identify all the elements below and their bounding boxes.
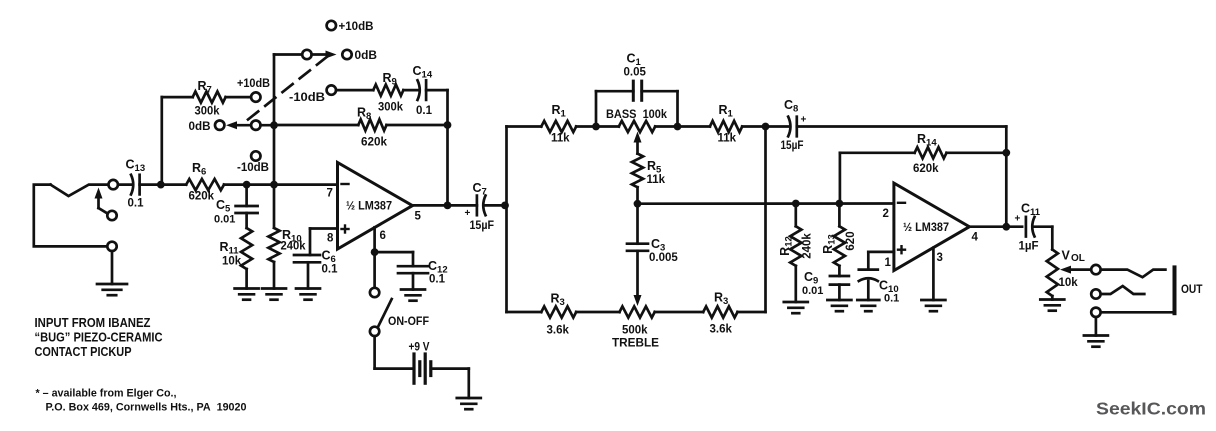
wire R7 to +10dB terminal — [226, 96, 251, 99]
svg-text:11k: 11k — [551, 133, 570, 145]
note input line1 — [35, 316, 151, 330]
label 0dB top — [355, 50, 378, 62]
label C7 — [473, 181, 487, 198]
resistor R7 — [193, 92, 226, 103]
input jack tip terminal — [109, 180, 118, 189]
svg-text:300k: 300k — [378, 102, 404, 114]
wire pin6 node down — [373, 256, 376, 288]
pin 4 label — [972, 232, 979, 244]
label R10 value — [281, 241, 307, 253]
svg-text:0.1: 0.1 — [322, 264, 339, 276]
svg-text:500k: 500k — [622, 325, 648, 337]
wire R5 to mid node — [636, 187, 639, 204]
node R10 branch (junction) — [270, 181, 278, 189]
wire R8 right — [387, 124, 448, 127]
label R12 — [778, 236, 795, 256]
wire op-amp output — [413, 204, 477, 207]
output jack ring terminal — [1091, 289, 1100, 298]
svg-text:8: 8 — [327, 233, 334, 245]
terminal -10dB (top switch) — [327, 85, 336, 94]
label R1 right — [719, 103, 734, 120]
pin 6 label — [380, 230, 386, 242]
svg-text:11k: 11k — [718, 133, 737, 145]
wire sleeve to ground — [111, 251, 114, 284]
svg-text:620k: 620k — [189, 191, 215, 203]
label C12 — [428, 259, 448, 276]
label R1 right value — [718, 133, 737, 145]
capacitor C1 box right — [642, 91, 678, 126]
wire C7 to bus — [486, 204, 507, 207]
capacitor C5 — [236, 206, 258, 213]
svg-text:3.6k: 3.6k — [710, 324, 733, 336]
resistor R1 right — [710, 121, 742, 132]
output jack sleeve terminal — [1091, 308, 1100, 317]
switch wiper terminal (top) — [302, 50, 311, 59]
ganged switch dashed link — [248, 56, 328, 120]
input jack wiper arrow — [95, 188, 108, 214]
node bus (junction) — [501, 202, 509, 210]
wire R3 to riser — [738, 311, 766, 314]
wire VOL to ground — [1051, 296, 1054, 300]
label R14 value — [913, 163, 939, 175]
svg-text:V: V — [1062, 249, 1071, 263]
label R13 value — [845, 231, 857, 250]
wire R7 left — [162, 96, 193, 99]
wire R9 to C14 — [403, 89, 417, 92]
svg-text:+: + — [801, 115, 807, 126]
resistor R14 — [915, 147, 947, 158]
op-amp U2 minus sign — [898, 202, 905, 204]
wire R13 stub — [838, 204, 841, 227]
label R9 — [383, 71, 397, 88]
label C6 — [322, 249, 336, 266]
label BASS — [606, 109, 668, 121]
label R7 value — [195, 106, 221, 118]
svg-text:P.O. Box 469, Cornwells Hts.,: P.O. Box 469, Cornwells Hts., PA 19020 — [46, 402, 247, 414]
capacitor C8 — [788, 117, 797, 137]
wire R1 to C8 — [742, 125, 788, 128]
label C1 value — [624, 67, 647, 79]
ground C12 — [401, 290, 425, 301]
potentiometer BASS 100k — [619, 121, 655, 132]
wire R11 to ground — [245, 269, 248, 289]
label R7 — [198, 79, 212, 96]
label R3 right value — [710, 324, 733, 336]
label R1 left value — [551, 133, 570, 145]
svg-text:0.1: 0.1 — [128, 198, 145, 210]
wire battery to ground — [431, 369, 469, 398]
label R3 right — [714, 291, 728, 308]
ground output jack — [1084, 336, 1108, 347]
label C13 value — [128, 198, 145, 210]
svg-text:620k: 620k — [361, 137, 388, 149]
svg-text:620: 620 — [845, 231, 857, 250]
label R12 value — [802, 233, 814, 259]
input jack frame — [34, 185, 108, 247]
wire C3 stub — [636, 204, 639, 244]
label 500k — [622, 325, 648, 337]
capacitor C7 — [477, 196, 486, 216]
note input line2 — [35, 331, 163, 345]
label R10 — [282, 228, 302, 245]
svg-text:SeekIC.com: SeekIC.com — [1096, 399, 1206, 419]
svg-text:240k: 240k — [802, 233, 814, 259]
label +9V — [409, 342, 430, 354]
svg-text:5: 5 — [415, 211, 422, 223]
capacitor C11 — [1026, 217, 1035, 237]
label 0dB left — [189, 121, 211, 133]
ground pin3 — [921, 300, 945, 311]
svg-text:OUT: OUT — [1181, 282, 1203, 296]
output jack sleeve wire — [1101, 311, 1173, 314]
label C8 plus — [801, 115, 807, 126]
wire R14 riser left — [839, 153, 842, 204]
wire -10dB to R9 — [336, 89, 373, 92]
svg-text:0.1: 0.1 — [429, 274, 446, 286]
wire bus to R1 — [507, 125, 542, 128]
resistor R11 — [241, 228, 252, 269]
resistor R12 — [790, 226, 801, 265]
wire pin3 stub — [932, 248, 935, 300]
wire middle rail — [638, 202, 894, 205]
capacitor C14 — [418, 80, 427, 100]
resistor R13 — [834, 226, 845, 265]
node bass left (junction) — [592, 123, 600, 131]
output jack frame bar — [1173, 267, 1177, 313]
terminal 0dB (left switch) — [215, 121, 224, 130]
wire output riser — [1005, 127, 1008, 227]
wire junction down to main row — [273, 125, 276, 184]
label C9 value — [802, 285, 823, 297]
wire treble to R3 right — [655, 311, 704, 314]
svg-text:3.6k: 3.6k — [547, 325, 570, 337]
label VOL value — [1059, 277, 1079, 289]
input jack tip contact — [51, 185, 109, 196]
label C7 plus — [465, 208, 471, 219]
note footnote line2 — [46, 402, 247, 414]
wire R12 to ground — [794, 266, 797, 302]
label R5 — [647, 159, 662, 176]
op-amp U1 minus sign — [342, 183, 349, 185]
svg-text:ON-OFF: ON-OFF — [388, 316, 429, 328]
watermark SeekIC.com — [1096, 399, 1206, 419]
ground C10 — [857, 300, 879, 311]
wire right riser — [764, 127, 767, 313]
label R8 — [357, 106, 371, 123]
op-amp U1 label — [346, 201, 392, 213]
note input line3 — [35, 345, 132, 359]
svg-text:0dB: 0dB — [189, 121, 211, 133]
svg-text:1µF: 1µF — [1019, 241, 1039, 253]
svg-text:+: + — [1015, 214, 1021, 225]
terminal +10dB (top switch) — [327, 21, 336, 30]
treble wiper arrow — [634, 251, 642, 306]
wire R3 to treble — [576, 311, 619, 314]
ground VOL — [1040, 300, 1064, 311]
potentiometer VOL 10k — [1047, 250, 1058, 297]
label R6 — [192, 161, 206, 178]
resistor R3 left — [541, 306, 576, 317]
VOL wiper arrow — [1060, 266, 1091, 274]
op-amp U1 plus sign — [342, 226, 349, 233]
wire U2 output — [969, 225, 1022, 228]
wire C12 to ground — [412, 273, 415, 289]
switch ON-OFF terminal upper — [370, 288, 379, 297]
svg-text:7: 7 — [327, 188, 333, 200]
node R13 (junction) — [836, 200, 844, 208]
ground C9 — [827, 300, 851, 311]
wire R14 left — [840, 151, 915, 154]
svg-text:* – available from Elger Co.,: * – available from Elger Co., — [36, 388, 177, 400]
wire junction up to top switch — [273, 55, 276, 126]
switch ON-OFF terminal lower — [370, 327, 379, 336]
wire sleeve to ground — [1095, 317, 1098, 335]
label R6 value — [189, 191, 215, 203]
pin 3 label — [937, 252, 943, 264]
label C1 — [627, 52, 642, 69]
wire R6 to op-amp — [224, 183, 338, 186]
input jack sleeve terminal — [107, 242, 116, 251]
capacitor C10 — [859, 270, 878, 281]
node treble mid (junction) — [634, 200, 642, 208]
wire pin6 stub — [373, 227, 376, 252]
label C10 — [879, 279, 899, 296]
label ON-OFF — [388, 316, 429, 328]
svg-text:4: 4 — [972, 232, 979, 244]
wire R1 to bass — [576, 125, 619, 128]
pin 5 label — [415, 211, 422, 223]
label R3 left — [551, 292, 565, 309]
label R11 value — [222, 256, 242, 268]
capacitor C6 — [294, 255, 320, 262]
wire C12 stub — [412, 252, 415, 266]
label C10 value — [884, 293, 899, 305]
node C8 left (junction) — [762, 123, 770, 131]
svg-text:10k: 10k — [222, 256, 242, 268]
label R3 left value — [547, 325, 570, 337]
wire C6 to ground — [307, 262, 310, 288]
wire R12 stub — [794, 204, 797, 227]
label R8 value — [361, 137, 388, 149]
label +10dB top — [339, 21, 374, 33]
svg-text:300k: 300k — [195, 106, 221, 118]
label C8 — [784, 98, 798, 115]
svg-text:CONTACT PICKUP: CONTACT PICKUP — [35, 345, 132, 359]
wire C13 to node — [140, 183, 187, 186]
pin 8 label — [327, 233, 334, 245]
label C11 value — [1019, 241, 1039, 253]
capacitor C1 box left — [596, 91, 633, 126]
label R5 value — [647, 174, 666, 186]
svg-text:½ LM387: ½ LM387 — [346, 201, 392, 213]
output jack tip contact — [1101, 270, 1166, 278]
input jack ring terminal — [107, 211, 116, 220]
capacitor C9 — [830, 276, 849, 285]
ground input jack — [97, 284, 127, 295]
label C5 — [216, 198, 231, 215]
resistor R5 — [632, 154, 643, 188]
bass wiper arrow — [634, 132, 642, 154]
wire bus to R3 — [507, 311, 542, 314]
potentiometer TREBLE 500k — [620, 306, 655, 317]
svg-text:10k: 10k — [1059, 277, 1079, 289]
svg-text:-10dB: -10dB — [289, 92, 325, 104]
wire C14 to feedback riser — [426, 89, 447, 92]
svg-text:OL: OL — [1071, 253, 1085, 264]
capacitor C3 — [627, 244, 648, 251]
wire R8 left — [278, 124, 358, 127]
resistor R8 — [358, 119, 386, 130]
resistor R6 — [186, 179, 224, 190]
resistor R10 — [268, 228, 279, 262]
wire wiper to junction — [261, 124, 275, 127]
node pin6 (junction) — [371, 248, 379, 256]
svg-text:0.01: 0.01 — [802, 285, 823, 297]
svg-text:0.01: 0.01 — [214, 214, 235, 226]
label C7 value — [470, 220, 495, 232]
switch wiper arrow left — [226, 121, 251, 129]
svg-text:+9 V: +9 V — [409, 342, 430, 354]
pin 2 label — [883, 208, 889, 220]
label OUT — [1181, 282, 1203, 296]
output jack tip terminal — [1091, 265, 1100, 274]
label C11 plus — [1015, 214, 1021, 225]
resistor R3 right — [703, 306, 737, 317]
svg-text:+10dB: +10dB — [237, 78, 270, 90]
wire pin8 stub — [310, 229, 338, 256]
label C12 value — [429, 274, 446, 286]
wire node to R10 — [273, 185, 276, 228]
capacitor C13 — [131, 175, 140, 195]
svg-text:0.1: 0.1 — [416, 105, 433, 117]
wire C11 to VOL — [1035, 227, 1053, 250]
svg-text:1: 1 — [885, 257, 892, 269]
note footnote line1 — [36, 388, 177, 400]
label R11 — [220, 240, 240, 257]
node U1 output (junction) — [444, 202, 452, 210]
node R8 feedback (junction) — [444, 121, 452, 129]
svg-text:0.05: 0.05 — [624, 67, 647, 79]
op-amp U1 body — [338, 163, 413, 250]
svg-text:6: 6 — [380, 230, 386, 242]
node bass right (junction) — [674, 123, 682, 131]
wire C5 to R11 — [245, 213, 248, 228]
resistor R1 left — [541, 121, 576, 132]
label R9 value — [378, 102, 404, 114]
wire jack to C13 — [118, 183, 132, 186]
label C14 value — [416, 105, 433, 117]
node R14 right (junction) — [1002, 149, 1010, 157]
label R13 — [821, 234, 838, 254]
wire C9 to ground — [838, 285, 841, 300]
svg-text:15µF: 15µF — [781, 140, 804, 152]
op-amp U2 label — [903, 222, 949, 234]
terminal +10dB (left switch) — [251, 92, 260, 101]
label C14 — [413, 64, 433, 81]
wire pin1 stub — [868, 252, 894, 270]
svg-text:+: + — [465, 208, 471, 219]
svg-text:3: 3 — [937, 252, 943, 264]
svg-text:15µF: 15µF — [470, 220, 495, 232]
label R1 left — [552, 103, 567, 120]
svg-text:240k: 240k — [281, 241, 307, 253]
switch wiper terminal (left) — [251, 121, 260, 130]
svg-text:INPUT FROM IBANEZ: INPUT FROM IBANEZ — [35, 316, 151, 330]
label C3 — [651, 237, 665, 254]
wire node to C5 — [245, 185, 248, 206]
node U2 output (junction) — [1002, 223, 1010, 231]
ground battery — [457, 398, 481, 409]
capacitor C1 — [633, 81, 641, 100]
svg-text:620k: 620k — [913, 163, 939, 175]
ground R10 — [262, 289, 286, 300]
wire to top wiper — [274, 53, 302, 56]
wire R14 right — [947, 151, 1007, 154]
battery B1 +9V — [414, 354, 431, 383]
label C8 value — [781, 140, 804, 152]
label -10dB top — [289, 92, 325, 104]
capacitor C12 — [398, 266, 428, 273]
svg-text:½ LM387: ½ LM387 — [903, 222, 949, 234]
svg-text:0.1: 0.1 — [884, 293, 899, 305]
label TREBLE — [612, 338, 659, 350]
svg-text:BASS 100k: BASS 100k — [606, 109, 668, 121]
node R12 (junction) — [792, 200, 800, 208]
wire C10 to ground — [867, 281, 870, 300]
terminal 0dB (top switch) — [342, 50, 351, 59]
svg-text:11k: 11k — [647, 174, 666, 186]
node R8 row left (junction) — [270, 121, 278, 129]
label R14 — [917, 132, 937, 149]
wire R13 to C9 — [838, 266, 841, 276]
label C3 value — [649, 252, 678, 264]
node C5 branch (junction) — [243, 181, 251, 189]
label C13 — [126, 158, 146, 175]
ground R12 — [784, 302, 808, 313]
resistor R9 — [373, 85, 403, 96]
ground R11 — [235, 289, 259, 300]
wire R10 to ground — [273, 262, 276, 289]
pin 1 label — [885, 257, 892, 269]
label C11 — [1021, 202, 1041, 219]
wire switch to battery — [375, 336, 414, 369]
node input (junction) — [157, 181, 165, 189]
svg-text:0dB: 0dB — [355, 50, 378, 62]
switch ON-OFF blade — [378, 299, 392, 327]
op-amp U2 plus sign — [898, 246, 905, 253]
svg-text:“BUG” PIEZO-CERAMIC: “BUG” PIEZO-CERAMIC — [35, 331, 163, 345]
label -10dB left — [237, 162, 269, 174]
label C5 value — [214, 214, 235, 226]
wire tone bus vertical — [505, 127, 508, 313]
wire pin6 to C12 — [375, 251, 413, 254]
svg-text:+10dB: +10dB — [339, 21, 374, 33]
wire C8 to right riser — [797, 125, 1007, 128]
op-amp U2 body — [894, 183, 970, 270]
ground C6 — [296, 289, 320, 300]
svg-text:TREBLE: TREBLE — [612, 338, 659, 350]
label C6 value — [322, 264, 339, 276]
label VOL — [1062, 249, 1085, 265]
svg-text:-10dB: -10dB — [237, 162, 269, 174]
wire feedback riser — [446, 90, 449, 205]
label +10dB left — [237, 78, 270, 90]
label C9 — [804, 270, 818, 287]
wire node up to R7 row — [160, 97, 163, 185]
svg-text:0.005: 0.005 — [649, 252, 678, 264]
pin 7 label — [327, 188, 333, 200]
wire bass to R1 right — [655, 125, 710, 128]
